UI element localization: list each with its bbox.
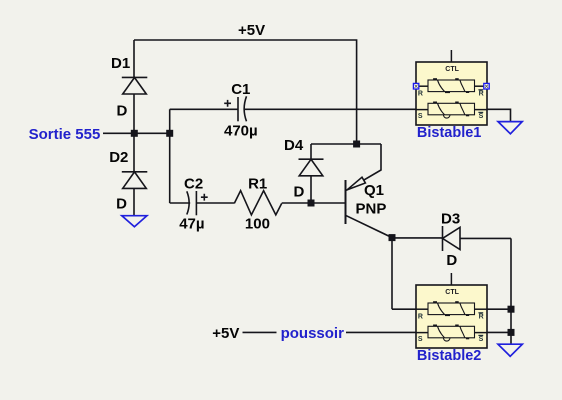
- svg-text:D3: D3: [441, 210, 460, 227]
- svg-text:47µ: 47µ: [179, 216, 204, 233]
- svg-text:Q1: Q1: [364, 182, 384, 199]
- svg-text:R1: R1: [248, 176, 267, 193]
- svg-text:D4: D4: [284, 137, 304, 154]
- svg-text:Sortie 555: Sortie 555: [29, 126, 101, 143]
- svg-text:470µ: 470µ: [224, 122, 258, 139]
- svg-text:poussoir: poussoir: [281, 325, 345, 342]
- svg-text:C2: C2: [184, 176, 203, 193]
- svg-text:Bistable1: Bistable1: [417, 125, 481, 141]
- svg-text:C1: C1: [231, 81, 250, 98]
- svg-text:+5V: +5V: [238, 22, 265, 39]
- svg-text:+5V: +5V: [212, 325, 239, 342]
- svg-text:Bistable2: Bistable2: [417, 348, 481, 364]
- svg-text:D: D: [117, 102, 128, 119]
- svg-text:D1: D1: [111, 55, 130, 72]
- svg-text:PNP: PNP: [356, 200, 387, 217]
- svg-text:D2: D2: [109, 149, 128, 166]
- svg-text:D: D: [294, 184, 305, 201]
- svg-text:D: D: [116, 196, 127, 213]
- svg-text:D: D: [446, 252, 457, 269]
- svg-text:100: 100: [245, 216, 270, 233]
